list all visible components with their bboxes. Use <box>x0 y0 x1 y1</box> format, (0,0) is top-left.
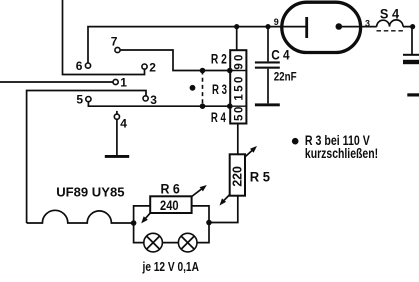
tube V1 internal contact dot (pin 3 side) <box>336 23 343 30</box>
label contact 3 <box>150 93 157 107</box>
wire: mains lead into contact 2 (top-left vertical) <box>63 0 145 75</box>
junction dot: left node of lamp/R6 pair <box>131 220 137 226</box>
svg-text:7: 7 <box>111 35 118 49</box>
wire: R5 bottom to lamp/R6 junction <box>209 196 238 223</box>
junction dot at right corner <box>410 24 415 29</box>
wire: left node down to lamp 1 <box>134 223 144 243</box>
switch S4 (bump contacts) <box>377 20 403 27</box>
chassis bar below right capacitor <box>407 93 419 96</box>
wire: right node up to R6 right end <box>192 206 209 223</box>
junction dot: right node of lamp/R6 pair <box>206 220 212 226</box>
S4 dashed actuator line <box>377 30 405 32</box>
note text line 2 <box>305 146 378 161</box>
label R5 <box>250 170 271 185</box>
switch contact 6 <box>85 63 90 68</box>
wire: tube pin 3 out to S4 <box>339 26 377 28</box>
svg-text:50: 50 <box>234 107 246 122</box>
capacitor at right edge, thick plate <box>403 60 419 64</box>
svg-text:C 4: C 4 <box>271 46 290 62</box>
value label 90 (R2 section) <box>234 55 246 70</box>
value label 240 (R6) <box>160 197 179 213</box>
svg-text:je 12 V 0,1A: je 12 V 0,1A <box>142 260 199 274</box>
switch contact 3 <box>143 96 148 101</box>
tap arrow R6 lower <box>141 213 150 224</box>
wire: contact 6 up to top net, across to tube pin 9 <box>88 27 307 64</box>
label contact 2 <box>149 60 156 74</box>
svg-text:R 5: R 5 <box>250 170 271 185</box>
label pin 9 <box>274 17 279 27</box>
bullet marker beside R3 <box>190 85 196 91</box>
svg-text:S 4: S 4 <box>380 5 399 21</box>
label pin 3 <box>365 18 370 28</box>
tap arrow R5 lower <box>220 195 230 206</box>
svg-text:240: 240 <box>160 197 179 213</box>
junction dot: C4 lead on top net <box>265 24 270 29</box>
wire: top net down to C4 <box>267 27 269 61</box>
label contact 1 <box>120 76 127 90</box>
lamp La1 <box>144 233 163 252</box>
value label 22nF <box>274 70 297 84</box>
junction dot: R3/R4 tap on resistor box <box>227 103 233 109</box>
wire: contact 1 feed from left edge <box>0 81 113 83</box>
note text line 1 <box>305 133 370 148</box>
resistor R5 (adjustable, 220) <box>230 154 245 195</box>
resistor stack R2 R3 R4 (tapped dropper) <box>230 50 246 123</box>
capacitor C4 plates <box>255 61 280 68</box>
heater chain wire with bumps (UF89 UY85 filaments) <box>27 210 134 223</box>
switch contact 4 (with stub) <box>114 111 119 119</box>
value label 50 (R4 section) <box>234 107 246 122</box>
label contact 5 <box>76 93 83 107</box>
svg-text:R 4: R 4 <box>211 110 226 125</box>
switch contact 5 <box>86 97 91 102</box>
svg-text:6: 6 <box>76 59 83 73</box>
junction dot: dashed link, top end <box>200 68 206 74</box>
wire: between lamps <box>162 242 178 244</box>
svg-text:kurzschließen!: kurzschließen! <box>305 146 378 161</box>
svg-text:9: 9 <box>274 17 279 27</box>
wire: S4 to right edge capacitor <box>403 27 412 54</box>
switch contact 2 <box>142 64 147 69</box>
switch contact 7 <box>115 47 120 52</box>
wire: contact 4 down to chassis <box>116 119 118 155</box>
svg-text:2: 2 <box>149 60 156 74</box>
wire: contact 5 to R3/R4 tap <box>88 102 230 107</box>
switch contact 1 <box>113 79 118 84</box>
label R3 <box>212 82 227 97</box>
junction dot: R2/R3 tap on resistor box <box>227 68 233 74</box>
wire: contact 7 to junction at R2/R3 tap <box>120 50 230 71</box>
value label 150 (R3 section) <box>234 77 246 101</box>
label contact 6 <box>76 59 83 73</box>
label tube heaters UF89 UY85 <box>56 184 124 199</box>
wire: right node down to lamp 2 <box>197 223 209 243</box>
tap arrow R5 upper <box>245 146 257 157</box>
wire: R4 bottom lead to R5 <box>237 124 239 155</box>
label lamps rating <box>142 260 199 274</box>
chassis ground bar <box>105 155 129 158</box>
label R2 <box>211 52 227 67</box>
note bullet <box>292 138 299 145</box>
tube V1 internal electrode bar (pin 9 side) <box>305 17 308 38</box>
junction dot: dashed link, bottom end <box>200 103 206 109</box>
svg-text:3: 3 <box>365 18 370 28</box>
svg-text:UF89 UY85: UF89 UY85 <box>56 184 124 199</box>
dashed short-circuit link across R3 <box>202 71 204 107</box>
svg-text:220: 220 <box>230 166 245 187</box>
wire: contact 3 to heater-chain left rail <box>27 91 146 224</box>
svg-text:4: 4 <box>120 116 127 130</box>
lamp La2 <box>178 233 197 252</box>
label contact 7 <box>111 35 118 49</box>
tube V1 envelope <box>282 2 361 52</box>
value label 220 (R5) <box>230 166 245 187</box>
resistor R6 (adjustable, 240) <box>150 196 191 213</box>
svg-text:150: 150 <box>234 77 246 101</box>
svg-text:22nF: 22nF <box>274 70 297 84</box>
label S4 <box>380 5 399 21</box>
svg-text:R 6: R 6 <box>161 181 181 196</box>
svg-text:1: 1 <box>120 76 127 90</box>
svg-text:5: 5 <box>76 93 83 107</box>
label R6 <box>161 181 181 196</box>
svg-text:R 3: R 3 <box>212 82 227 97</box>
label C4 <box>271 46 290 62</box>
tap arrow R6 upper <box>192 185 207 197</box>
svg-text:R 2: R 2 <box>211 52 227 67</box>
label contact 4 <box>120 116 127 130</box>
chassis bar below C4 <box>255 103 280 106</box>
svg-text:90: 90 <box>234 55 246 70</box>
wire: top net to R2 (lead) <box>236 27 238 50</box>
junction dot: R2 lead on top net <box>234 24 239 29</box>
wire: C4 bottom lead to chassis <box>267 69 269 104</box>
label R4 <box>211 110 226 125</box>
svg-text:3: 3 <box>150 93 157 107</box>
wire: left node up to R6 left end <box>134 206 151 223</box>
capacitor at right edge (cut off), thin plate <box>403 54 419 56</box>
